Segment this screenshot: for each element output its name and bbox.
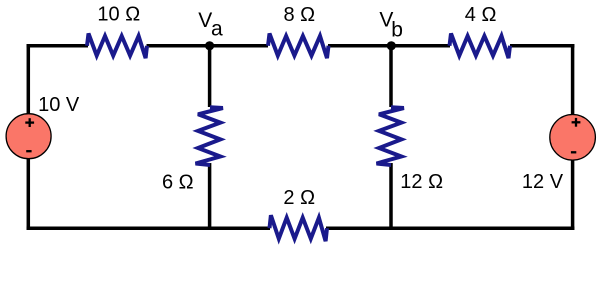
voltage source V1 minus sign: [26, 150, 31, 152]
wire resistor 12 to bottom: [389, 163, 393, 228]
voltage source V1 plus sign: [25, 118, 34, 127]
svg-text:10 Ω: 10 Ω: [97, 4, 140, 26]
svg-text:b: b: [391, 19, 403, 42]
node Va junction dot: [205, 41, 214, 50]
resistor R2 8 ohm: [268, 34, 329, 59]
voltage source V2 minus sign: [571, 151, 576, 153]
wire right vertical: [571, 44, 575, 230]
node Vb junction dot: [387, 41, 396, 50]
node Vb label: [379, 8, 403, 41]
wire top-right segment: [510, 44, 574, 48]
wire bottom-right segment: [326, 226, 574, 230]
node Va label: [198, 9, 223, 41]
resistor R4 2 ohm: [270, 215, 328, 241]
voltage source V1 10V body: [6, 114, 51, 159]
wire top between node Va resistor 8 and node Vb: [328, 44, 450, 48]
svg-text:4 Ω: 4 Ω: [465, 4, 497, 26]
svg-text:12 V: 12 V: [522, 171, 564, 193]
wire top-left segment: [27, 44, 89, 48]
resistor R1 10 ohm: [87, 34, 147, 59]
wire node Vb to resistor 12: [389, 46, 393, 107]
wire resistor 6 to bottom: [208, 163, 212, 228]
svg-text:8 Ω: 8 Ω: [284, 4, 316, 26]
voltage source V2 12V body: [550, 115, 596, 161]
resistor R3 4 ohm: [450, 34, 511, 59]
voltage source V2 plus sign: [572, 118, 581, 127]
wire top between R10 and node Va: [147, 44, 269, 48]
svg-text:a: a: [211, 18, 223, 41]
wire node Va to resistor 6: [208, 46, 212, 107]
svg-text:6 Ω: 6 Ω: [162, 171, 194, 193]
resistor R6 12 ohm: [377, 107, 404, 165]
wire left vertical: [27, 44, 31, 230]
wire bottom-left segment: [27, 226, 271, 230]
svg-text:10 V: 10 V: [38, 94, 80, 116]
svg-text:12 Ω: 12 Ω: [400, 171, 443, 193]
resistor R5 6 ohm: [196, 107, 223, 165]
svg-text:2 Ω: 2 Ω: [283, 187, 315, 209]
